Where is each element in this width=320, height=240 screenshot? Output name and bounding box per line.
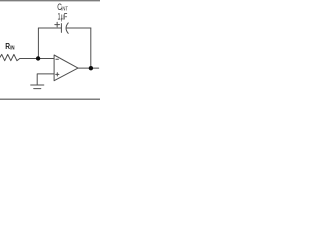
resistor RIN xyxy=(0,54,20,60)
plus sign (non-inverting input) xyxy=(56,73,59,75)
minus sign (inverting input) xyxy=(56,58,59,60)
capacitor CINT right plate (curved) xyxy=(66,23,68,33)
wire resistor to inverting input xyxy=(20,58,54,60)
svg-text:1µF: 1µF xyxy=(58,11,68,21)
capacitor CINT left plate xyxy=(60,24,62,33)
wire capacitor to top-right corner xyxy=(66,27,91,29)
op-amp U1 triangle xyxy=(54,55,78,81)
node: inverting input junction dot xyxy=(36,56,40,60)
ground bar 1 xyxy=(31,84,44,86)
wire top to capacitor left plate xyxy=(38,27,61,29)
ground bar 2 xyxy=(34,88,41,90)
non-inverting input wire to ground xyxy=(37,74,54,85)
svg-text:IN: IN xyxy=(10,46,14,52)
bottom page border xyxy=(0,98,100,100)
top page border xyxy=(0,0,100,2)
node: output junction dot xyxy=(89,66,93,70)
wire right side down to output node xyxy=(90,28,92,68)
wire junction up to capacitor xyxy=(37,28,39,59)
capacitor polarity plus mark xyxy=(55,24,60,26)
output wire xyxy=(78,67,99,69)
